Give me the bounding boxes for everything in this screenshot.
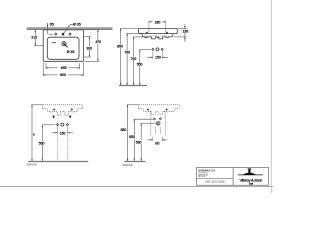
- dim 700 to floor: [133, 37, 135, 85]
- floor line view B: [119, 85, 147, 87]
- tap hole left: [55, 33, 57, 35]
- svg-text:215: 215: [31, 36, 37, 40]
- fixing hole marks: [53, 108, 55, 110]
- dim 300: [88, 37, 90, 57]
- rim slab: [139, 28, 178, 33]
- V&B crest: [248, 168, 252, 169]
- dim 600: [43, 74, 57, 76]
- dim x: [31, 105, 33, 161]
- tap hole row detail: [140, 48, 151, 50]
- svg-text:650: 650: [129, 135, 135, 139]
- title block divider vertical: [232, 168, 234, 186]
- svg-text:550: 550: [137, 63, 143, 67]
- dim 150 (view B): [152, 51, 154, 59]
- dim 850 (view D): [127, 105, 129, 161]
- overflow slot: [52, 42, 56, 44]
- svg-text:550: 550: [39, 141, 45, 145]
- svg-text:280: 280: [155, 20, 161, 24]
- tap hole row: [42, 124, 55, 126]
- dim 150 (view C): [57, 127, 59, 134]
- svg-text:195: 195: [183, 29, 189, 33]
- wall band: [27, 27, 113, 30]
- fixing bolt arrow right: [69, 116, 72, 119]
- hidden outline of basin: [43, 105, 83, 115]
- tap hole right: [69, 33, 71, 35]
- svg-text:850: 850: [121, 128, 127, 132]
- svg-text:SU 60 B: SU 60 B: [198, 176, 206, 178]
- dim 65: [47, 23, 49, 35]
- tap hole centre (Ø35): [61, 33, 64, 36]
- ceramic underside profile: [142, 34, 173, 39]
- drain arrow: [65, 45, 68, 48]
- svg-text:VI21 10.12.2018: VI21 10.12.2018: [205, 180, 225, 184]
- siphon channel: [150, 112, 152, 136]
- dim 550 to floor: [139, 49, 141, 85]
- svg-text:465: 465: [61, 66, 67, 70]
- svg-text:Ø 35: Ø 35: [73, 23, 81, 27]
- hidden line through underside: [144, 35, 169, 37]
- svg-text:790: 790: [124, 51, 130, 55]
- svg-text:600: 600: [60, 73, 66, 77]
- screw holes in channel: [154, 118, 156, 120]
- svg-text:0243 00: 0243 00: [27, 163, 37, 167]
- svg-text:x: x: [33, 133, 35, 137]
- dim 215: [34, 30, 36, 46]
- fixing bolt arrow left: [52, 116, 55, 119]
- hidden outline of basin side: [139, 105, 179, 112]
- channel top tabs: [151, 112, 165, 115]
- page frame bottom edge: [0, 186, 273, 188]
- svg-text:150: 150: [60, 131, 66, 135]
- dim 80: [151, 137, 153, 141]
- basin bowl: [47, 37, 79, 59]
- dim 650 (view D): [133, 119, 135, 161]
- dim 195: [184, 24, 186, 41]
- dim 850 to floor: [120, 28, 122, 85]
- svg-text:580: 580: [136, 140, 142, 144]
- drain outlet: [156, 121, 160, 125]
- svg-text:470: 470: [95, 40, 101, 44]
- svg-text:1748: 1748: [249, 184, 253, 186]
- title block frame: [197, 168, 269, 186]
- drain pipe lines: [154, 127, 156, 134]
- svg-text:Villeroy & Boch: Villeroy & Boch: [239, 179, 262, 183]
- svg-text:80: 80: [155, 142, 159, 146]
- svg-text:700: 700: [131, 57, 137, 61]
- dim 580 (view D): [140, 123, 142, 161]
- floor line view C: [28, 161, 88, 163]
- fixing hole left: [146, 32, 148, 34]
- dim 280: [149, 21, 152, 23]
- svg-text:850: 850: [117, 45, 123, 49]
- dim 790 to floor: [126, 33, 128, 85]
- page frame right edge: [270, 0, 272, 193]
- dim 465: [46, 67, 58, 69]
- drain Ø45: [62, 42, 66, 46]
- svg-text:Ø 45: Ø 45: [67, 50, 75, 54]
- supply stub lines: [57, 135, 59, 161]
- svg-text:65: 65: [50, 23, 54, 27]
- svg-text:300: 300: [86, 46, 92, 50]
- fixing hole marks (dark): [147, 108, 149, 110]
- title block divider horizontal: [197, 178, 234, 180]
- basin outer rim: [43, 30, 83, 61]
- fixing hole right: [166, 32, 168, 34]
- floor line view D: [124, 161, 145, 163]
- svg-text:0243 00: 0243 00: [123, 163, 133, 167]
- label Ø35 leader: [64, 24, 73, 33]
- svg-text:150: 150: [155, 55, 161, 59]
- dim 550 (view C): [41, 125, 43, 161]
- dim 470: [97, 30, 99, 61]
